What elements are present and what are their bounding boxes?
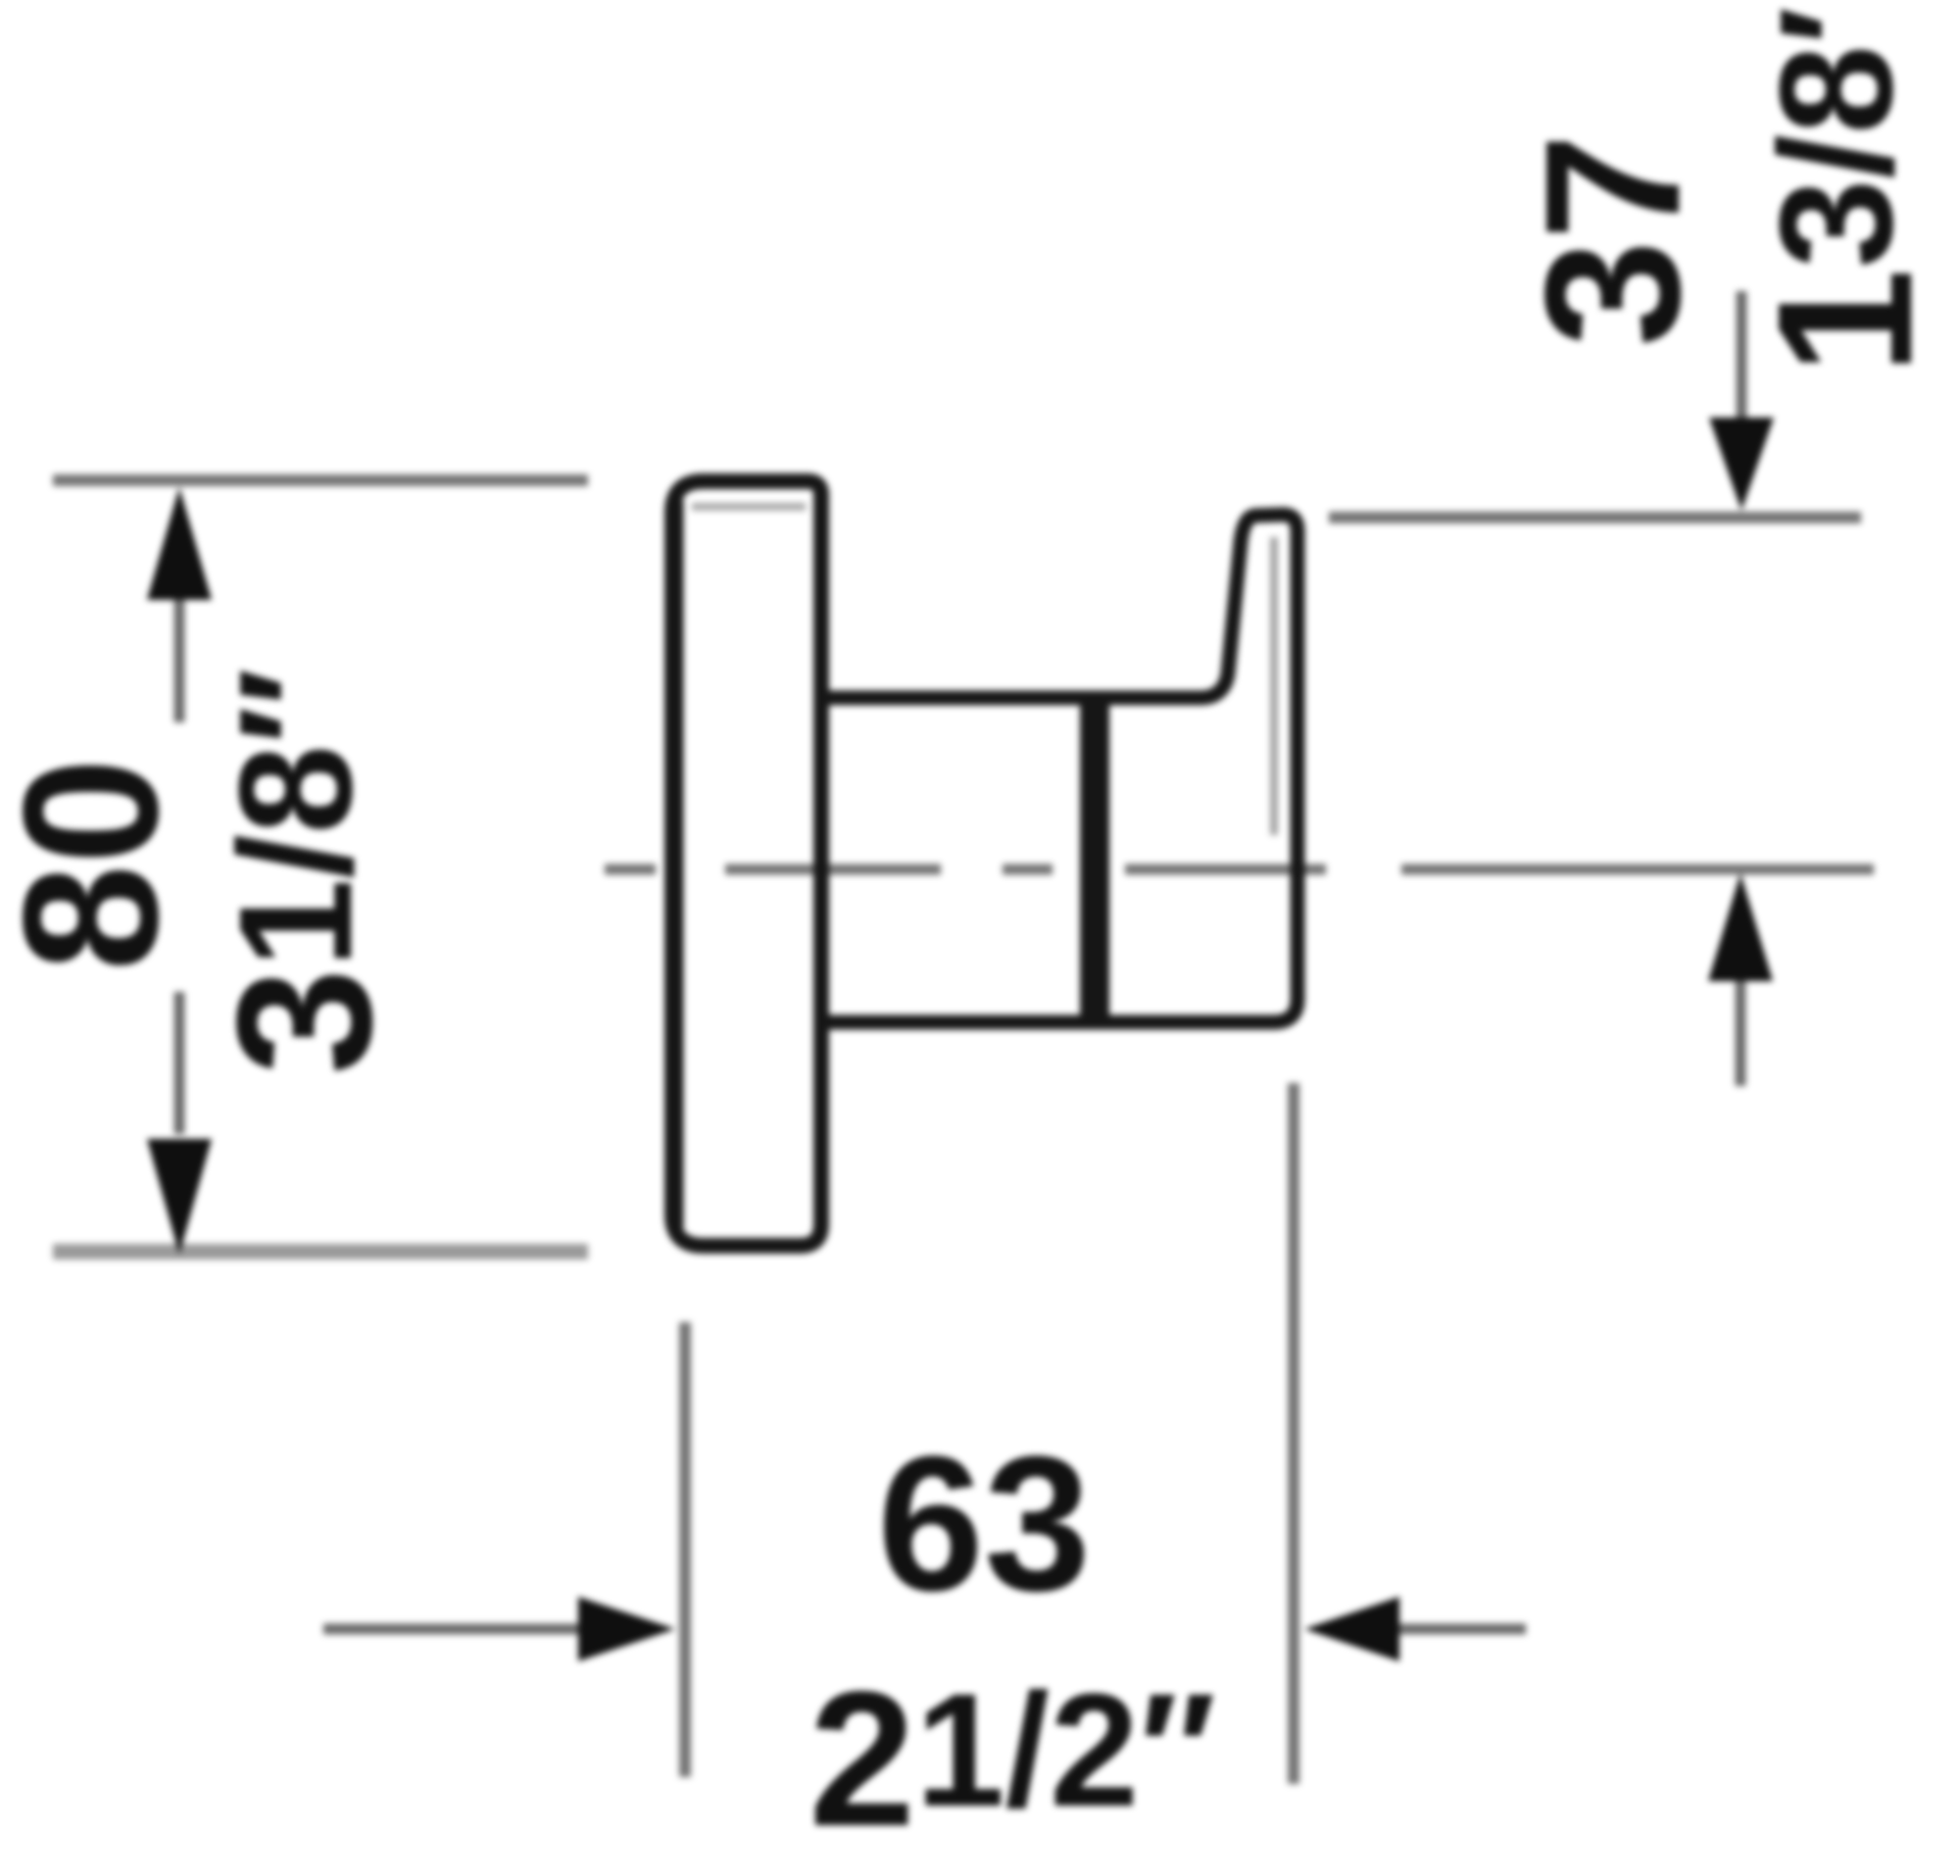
svg-text:80: 80 bbox=[0, 758, 198, 971]
dim 37: upper arrow (points down to extension line) bbox=[1737, 291, 1747, 418]
dim 80: top extension line bbox=[53, 474, 588, 486]
centerline (dash-dot axis) bbox=[605, 864, 1874, 875]
stem bottom line bbox=[825, 1015, 1276, 1030]
hook head inner highlight line bbox=[1270, 537, 1278, 835]
dim 80: upper arrow (points up) bbox=[147, 487, 212, 600]
dim 63: right extension line bbox=[1288, 1083, 1299, 1784]
hook head outline (slant front, top cap, outer right edge) bbox=[1200, 515, 1298, 1022]
dim 63: left arrow (points right) bbox=[323, 1624, 578, 1635]
plate back (wall side) edge reinforcement bbox=[671, 500, 684, 1228]
dim 37: lower arrow (points up to centerline) bbox=[1708, 873, 1773, 981]
dim 80: bottom extension line bbox=[53, 1244, 588, 1259]
svg-text:63: 63 bbox=[877, 1416, 1091, 1631]
dim 80: lower arrow (points down) bbox=[147, 1139, 212, 1255]
svg-text:31/8″: 31/8″ bbox=[197, 667, 412, 1075]
dim 63: right arrow (points left) bbox=[1304, 1597, 1399, 1661]
svg-text:37: 37 bbox=[1505, 133, 1720, 347]
wall plate (side view, rounded rectangle) bbox=[672, 481, 821, 1246]
dim 37: extension line (top of hook) bbox=[1329, 512, 1861, 523]
plate inner top edge line bbox=[692, 503, 806, 511]
svg-text:13/8″: 13/8″ bbox=[1738, 0, 1952, 375]
dim 63: left extension line bbox=[679, 1322, 691, 1777]
joint line (stem / head junction, thick) bbox=[1080, 693, 1109, 1027]
svg-text:21/2″: 21/2″ bbox=[808, 1652, 1216, 1866]
stem top line bbox=[825, 691, 1200, 706]
